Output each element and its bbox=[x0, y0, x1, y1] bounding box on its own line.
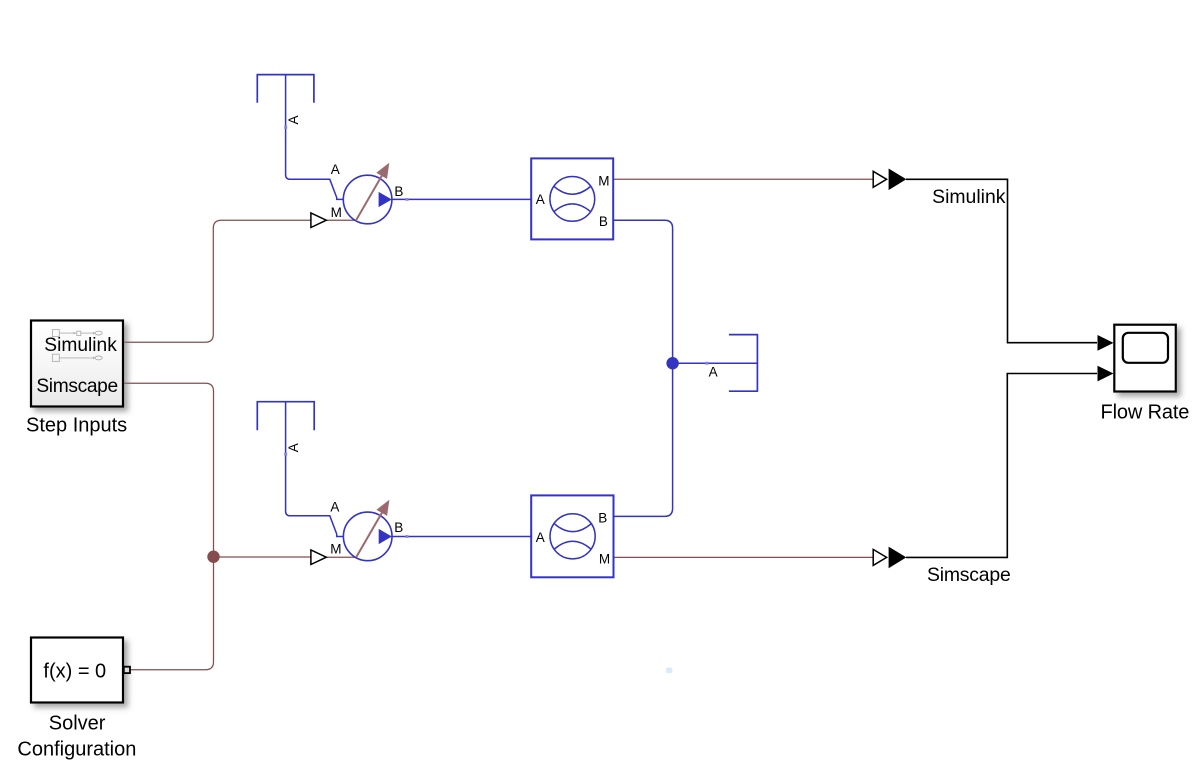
svg-text:M: M bbox=[331, 205, 342, 220]
svg-text:B: B bbox=[598, 511, 607, 526]
svg-text:Step Inputs: Step Inputs bbox=[26, 415, 127, 437]
svg-text:Solver: Solver bbox=[49, 712, 106, 734]
svg-text:B: B bbox=[599, 214, 608, 229]
svg-text:M: M bbox=[599, 551, 610, 566]
svg-text:Simscape: Simscape bbox=[36, 376, 117, 397]
svg-text:A: A bbox=[286, 443, 301, 452]
svg-text:A: A bbox=[331, 162, 340, 177]
svg-text:B: B bbox=[394, 184, 403, 199]
svg-text:A: A bbox=[536, 530, 545, 545]
svg-text:M: M bbox=[330, 541, 341, 556]
svg-text:Configuration: Configuration bbox=[17, 738, 136, 760]
svg-text:Flow Rate: Flow Rate bbox=[1101, 401, 1190, 423]
svg-text:Simulink: Simulink bbox=[44, 335, 117, 356]
svg-text:A: A bbox=[330, 499, 339, 514]
svg-text:M: M bbox=[598, 174, 609, 189]
svg-text:B: B bbox=[394, 520, 403, 535]
svg-text:A: A bbox=[536, 192, 545, 207]
svg-text:A: A bbox=[709, 364, 718, 379]
svg-text:f(x) = 0: f(x) = 0 bbox=[43, 660, 106, 682]
svg-text:A: A bbox=[286, 115, 301, 124]
svg-text:Simulink: Simulink bbox=[932, 186, 1006, 208]
svg-text:Simscape: Simscape bbox=[927, 564, 1011, 586]
